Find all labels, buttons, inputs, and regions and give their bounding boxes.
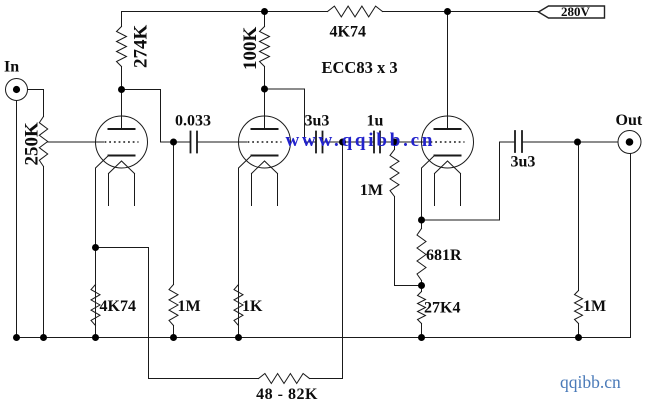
resistor R 100K (plate load V2)	[260, 12, 270, 90]
triode V2 cathode	[252, 155, 278, 157]
node output / 1M	[574, 139, 581, 146]
heater V1	[109, 161, 135, 206]
triode V2 envelope	[239, 116, 291, 168]
capacitor C 0.033	[191, 132, 198, 153]
wire 3u3 to 1u	[323, 141, 375, 143]
node ground 1M	[170, 334, 177, 341]
svg-text:ECC83 x 3: ECC83 x 3	[322, 58, 398, 77]
node ground 1M out	[575, 334, 582, 341]
wire top rail left segment	[122, 11, 328, 13]
svg-text:280V: 280V	[561, 4, 591, 19]
node V3 cathode	[418, 217, 425, 224]
wire feedback vertical from node	[342, 142, 344, 379]
svg-text:qqibb.cn: qqibb.cn	[560, 372, 621, 392]
node 3u3-1u / feedback	[339, 139, 346, 146]
capacitor C 3u3 (interstage)	[316, 132, 323, 153]
resistor R 1M (V3 grid leak)	[390, 142, 421, 286]
wire V1 anode lead	[121, 90, 123, 130]
wire jack ground leg	[16, 101, 18, 338]
node top rail / 100K	[261, 8, 268, 15]
svg-text:1M: 1M	[583, 298, 606, 315]
svg-text:4K74: 4K74	[100, 298, 136, 315]
node top rail / V3 anode	[444, 8, 451, 15]
heater V2	[252, 161, 278, 206]
capacitor C 3u3 (output)	[515, 131, 522, 152]
wire jack to ground rail	[630, 154, 632, 338]
wire cap to V2 grid	[197, 141, 247, 143]
triode V1 envelope	[96, 116, 148, 168]
node 681R / 27K4	[418, 282, 425, 289]
node ground 1K	[235, 334, 242, 341]
triode V3 grid (dotted)	[431, 141, 465, 143]
node 1u / V3 grid	[391, 139, 398, 146]
svg-text:www.qqibb.cn: www.qqibb.cn	[286, 130, 436, 151]
svg-text:4K74: 4K74	[330, 24, 366, 41]
svg-text:681R: 681R	[426, 247, 462, 264]
resistor R 250K (volume)	[39, 117, 47, 338]
wire top rail right segment	[383, 11, 539, 13]
resistor R 1M (output load)	[575, 142, 583, 338]
wire V1 cathode lead	[96, 156, 109, 338]
triode V3 envelope	[422, 116, 474, 168]
wire pot tap to V1 grid	[48, 141, 104, 143]
node V1 cathode / feedback	[92, 244, 99, 251]
resistor R 48-82K (feedback)	[259, 374, 310, 384]
resistor R 681R	[417, 220, 426, 286]
resistor R 27K4	[418, 286, 426, 338]
resistor R 4K74 (V1 cathode)	[91, 285, 100, 338]
resistor R 1M (V2 grid leak)	[169, 142, 178, 338]
triode V2 grid (dotted)	[248, 141, 282, 143]
svg-text:48 - 82K: 48 - 82K	[256, 386, 318, 402]
wire ground rail	[17, 337, 631, 339]
svg-text:Out: Out	[616, 112, 643, 129]
wire V3 cathode lead	[422, 156, 435, 221]
svg-text:1M: 1M	[178, 298, 201, 315]
triode V2 anode	[252, 128, 278, 130]
wire V2 anode to 3u3 cap	[265, 89, 317, 142]
input jack J1	[6, 79, 28, 101]
svg-text:3u3: 3u3	[305, 113, 330, 130]
triode V1 cathode	[109, 155, 135, 157]
resistor R 274K (plate load V1)	[117, 12, 127, 90]
svg-text:1K: 1K	[242, 298, 263, 315]
node ground 27K4	[418, 334, 425, 341]
node V2 grid / 1M	[170, 139, 177, 146]
input jack pin	[13, 86, 20, 93]
triode V1 anode	[109, 128, 135, 130]
wire V2 cathode lead	[239, 156, 252, 338]
resistor R 1K (V2 cathode)	[234, 285, 243, 338]
output jack pin	[626, 138, 634, 146]
wire jack to volume pot	[28, 90, 44, 117]
svg-text:1M: 1M	[360, 182, 383, 199]
output jack J2	[618, 131, 641, 154]
triode V1 grid (dotted)	[105, 141, 139, 143]
capacitor C 1u	[374, 132, 380, 153]
280V supply flag	[539, 6, 605, 18]
svg-text:In: In	[4, 59, 19, 76]
wire output cap to jack	[522, 141, 618, 143]
node ground 4K74	[92, 334, 99, 341]
triode V3 anode	[435, 128, 461, 130]
node V2 anode	[261, 86, 268, 93]
wire V2 anode lead	[264, 89, 266, 129]
svg-text:3u3: 3u3	[511, 154, 536, 171]
svg-text:100K: 100K	[240, 27, 261, 71]
heater V3	[435, 161, 461, 206]
resistor R 4K74 (top, horizontal)	[328, 6, 383, 17]
svg-text:274K: 274K	[131, 25, 152, 69]
node V1 anode	[118, 86, 125, 93]
svg-text:0.033: 0.033	[175, 113, 211, 130]
svg-text:250K: 250K	[22, 122, 43, 166]
wire 1u to V3 grid	[380, 141, 430, 143]
wire feedback bottom left segment	[96, 248, 259, 379]
wire feedback bottom right segment	[310, 378, 343, 380]
wire V3 cathode to output cap	[422, 142, 516, 220]
wire V1 anode to coupling cap	[122, 90, 191, 143]
svg-text:1u: 1u	[367, 113, 384, 130]
node ground jack	[13, 334, 20, 341]
triode V3 cathode	[435, 155, 461, 157]
node ground pot	[40, 334, 47, 341]
svg-text:27K4: 27K4	[424, 300, 460, 317]
wire V3 anode lead from rail	[447, 12, 449, 130]
